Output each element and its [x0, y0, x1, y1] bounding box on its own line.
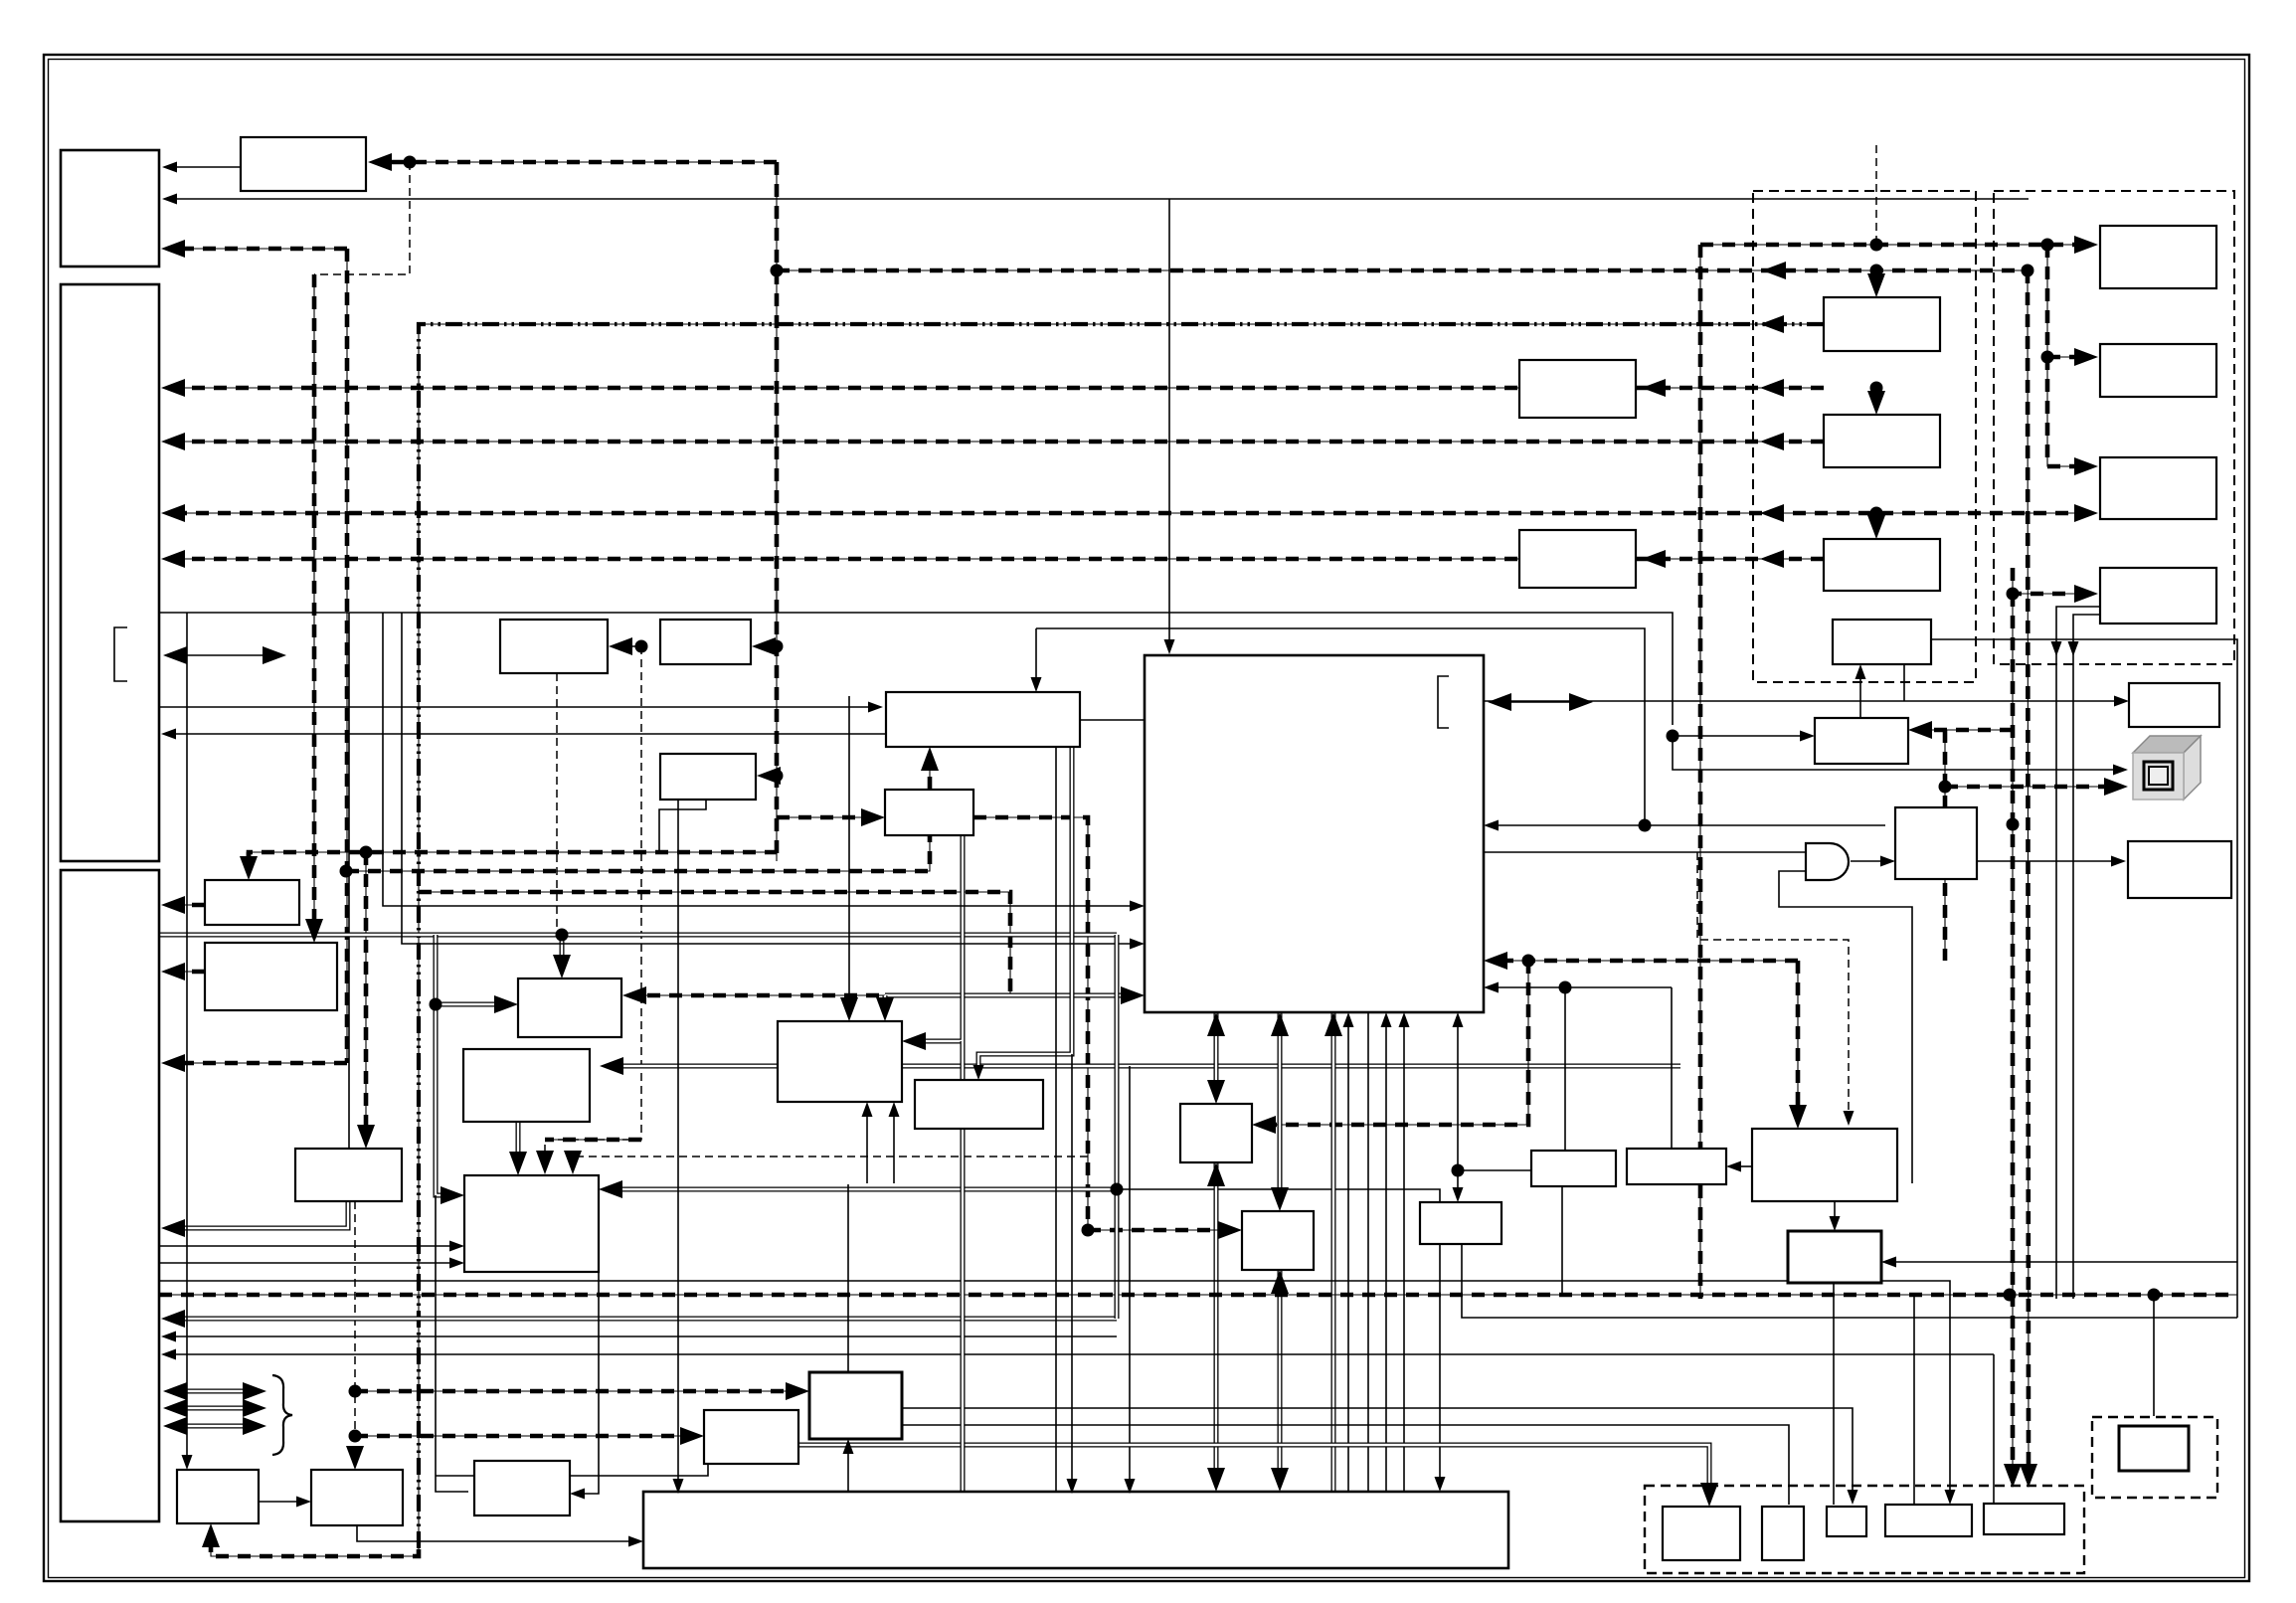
bus y=1237 into BR2 left edge: [1088, 1229, 1232, 1231]
bus y=857 J1 riser to x=781: [249, 852, 777, 861]
arrowhead x=2024 into bottom container: [2004, 1464, 2022, 1488]
arrowhead bus272 at container1 edge: [1762, 262, 1786, 279]
arrowhead into Q right y=993: [1484, 982, 1499, 993]
arrowhead into cube y=774: [2113, 765, 2128, 776]
arrowhead bus516 at container1 edge: [1760, 504, 1784, 522]
arrowhead into R1 left edge: [2074, 236, 2098, 254]
connector block P2 (left tall): [61, 284, 159, 861]
arrowhead into E2 top x=890: [876, 997, 894, 1021]
wire Q bottom x=1356 to W: [1347, 1022, 1349, 1492]
arrowhead bus390 into P2: [161, 379, 185, 397]
bus from F right y=822 corner down x=1094: [973, 817, 1088, 1230]
arrowhead into P3 y=1326: [161, 1310, 185, 1328]
arrowhead into E2 top x=854: [840, 997, 858, 1021]
right dashed container RC: [2092, 1417, 2217, 1498]
arrowhead into E2 bottom x=899: [889, 1102, 900, 1117]
heavy dashed arrow into BigR top x=1808: [1797, 961, 1799, 1119]
arrowhead into P3 y=1362: [161, 1349, 176, 1360]
double line into N right edge y=1072: [610, 1064, 1680, 1069]
solid line y=993 into Q right edge: [1494, 986, 1672, 988]
wire dot to D3: [767, 775, 777, 777]
arrowhead into BR1 bottom: [1207, 1162, 1225, 1186]
arrowhead into SG right edge: [570, 1489, 585, 1500]
curly brace right of arrow rows: [272, 1375, 292, 1455]
arrowhead into R4 left edge: [2074, 585, 2098, 603]
arrowhead bus444 at container1 edge: [1760, 433, 1784, 450]
connector block P3 (left bottom tall): [61, 870, 159, 1521]
box b3: [1827, 1507, 1866, 1536]
junction dot (781,780): [771, 770, 784, 783]
box D3 (register): [660, 754, 756, 800]
bus row y=516 (P2 to R3): [171, 512, 2090, 514]
arrowhead into P3 y=910: [161, 896, 185, 914]
arrowhead into R2 left edge: [2074, 348, 2098, 366]
solid line into P left y=1270 from P3: [159, 1262, 454, 1264]
arrowhead into P1 y=200: [162, 194, 177, 205]
vertical bus x=1887 into C1a: [1875, 270, 1877, 288]
double line Q bottom to BR1 top: [1214, 1012, 1219, 1094]
arrowhead into Q bottom x=1394: [1381, 1012, 1392, 1027]
arrowhead into Q top: [1164, 639, 1175, 654]
solid line into Q left y=949 from corner x=404: [402, 613, 1135, 944]
box D2 (latch): [660, 620, 751, 664]
box X1 (power): [177, 1470, 259, 1523]
bus arrow into P3 y=977 from J2: [171, 971, 205, 973]
arrowhead into BR1 right edge: [1252, 1116, 1276, 1134]
junction dot (368,857): [360, 846, 373, 859]
vertical wire x=1574 into S1 top: [1564, 987, 1566, 1151]
vertical bus x=1537 corner into BR1 right edge: [1262, 961, 1528, 1125]
box R1: [2100, 226, 2216, 288]
junction dot (1956,791): [1939, 781, 1952, 794]
vertical dashed x=645 from D2 row down to P top: [545, 646, 641, 1165]
arrowhead into P top x=521: [509, 1152, 527, 1175]
long line y=1288 to b4: [159, 1281, 1950, 1495]
bus y=876 from F bottom: [346, 835, 930, 871]
arrowhead into P3 y=1235: [161, 1219, 185, 1237]
arrowhead into b1 top: [1700, 1483, 1718, 1507]
box S3: [1788, 1231, 1881, 1283]
arrowhead into X1 bottom: [202, 1523, 220, 1547]
connector block P1 (top-left): [61, 150, 159, 267]
junction dot (2039,272): [2022, 265, 2034, 277]
arrowhead into D1 right edge: [609, 637, 632, 655]
box B (top buffer): [241, 137, 366, 191]
junction dot (1887,246): [1870, 239, 1883, 252]
bidir double arrow row3 y=1434: [173, 1424, 257, 1429]
arrow from W top up into Z bottom: [847, 1449, 849, 1492]
arrowhead into L top: [553, 955, 571, 979]
bus row y=444 (P2 to C1b): [171, 441, 1824, 443]
arrowhead bus516 into P2: [161, 504, 185, 522]
arrowhead into R3 left edge y=469: [2074, 457, 2098, 475]
box Z (pll): [809, 1372, 902, 1439]
vertical dashed x=560 from D1 bottom: [556, 673, 558, 932]
bus into P1 y=250 from x=349: [174, 248, 347, 250]
solid lines R4 bottom hooks down x=2085: [2073, 615, 2100, 1299]
double line y=1453 to b1: [798, 1445, 1709, 1495]
box S1: [1531, 1151, 1616, 1186]
bus y=1444 from dot to Y: [355, 1435, 694, 1437]
bus y=897 to x=1016 corner down: [419, 892, 1010, 995]
arrowhead into W top x=1223: [1207, 1468, 1225, 1492]
vertical wire x=1925 into b4: [1913, 1295, 1915, 1505]
arrowhead row1 right: [243, 1382, 266, 1400]
bottom dashed container BC: [1645, 1486, 2084, 1573]
arrowhead into S3 top: [1830, 1216, 1841, 1231]
box E (controller wide): [886, 692, 1080, 747]
box C1a: [1824, 297, 1940, 351]
arrowhead into Q right y=966: [1484, 952, 1507, 970]
arrowhead into W top x=682: [673, 1479, 684, 1494]
vertical bus x=2040 down right side: [2028, 270, 2029, 1478]
junction dot (357,1444): [349, 1430, 362, 1443]
arrowhead into D2 right edge: [752, 637, 776, 655]
arrowhead into S3 right edge: [1881, 1257, 1896, 1268]
arrowhead into BR2 bottom: [1271, 1270, 1289, 1294]
arrowhead into Z left edge: [786, 1382, 809, 1400]
wire BigR bottom to S3 top: [1834, 1201, 1836, 1221]
vertical bus x=1887 into C1b: [1875, 388, 1877, 406]
vertical wire x=1136 into W top: [1129, 1066, 1131, 1486]
arrowhead into C1b top: [1867, 391, 1885, 415]
junction dot (1682,740): [1667, 730, 1679, 743]
solid line into P3 y=1344: [171, 1336, 1117, 1337]
arrowhead into Q left y=949: [1130, 939, 1145, 950]
bus row y=390 (P2 to C1b): [171, 387, 1824, 389]
arrowhead into b3 top: [1848, 1490, 1858, 1505]
box b1: [1663, 1507, 1740, 1560]
vertical bus x=368 from y=857 into K top: [365, 852, 367, 1140]
vertical dashed x=412 drop: [314, 162, 410, 274]
vertical dashed x=357: [354, 1201, 356, 1460]
arrowhead into E top: [1031, 677, 1042, 692]
arrowhead into W left edge: [628, 1536, 643, 1547]
box b2: [1762, 1507, 1804, 1560]
junction dot (781,650): [771, 640, 784, 653]
wire U right to V: [1977, 860, 2116, 862]
and-gate lower input hook: [1779, 871, 1912, 1183]
vertical wire x=853 into Z top: [847, 1184, 849, 1372]
arrowhead bus390 into M1 right edge: [1642, 379, 1666, 397]
dash-dot bus y=326 (C1a to x=421 corner, down to 1565): [419, 324, 1824, 1549]
bus corner x=349 down to y=1069: [346, 249, 348, 1063]
box C1c: [1824, 539, 1940, 591]
bus y=272 (x=781 to right): [777, 269, 2029, 271]
arrowhead into X2 top: [346, 1446, 364, 1470]
arrowhead dashdot at container1 edge: [1760, 315, 1784, 333]
arrowhead bidir left: [163, 646, 187, 664]
arrowhead into P1 y=250: [161, 240, 185, 258]
arrowhead into C1c top: [1867, 515, 1885, 539]
arrowhead into N right edge: [600, 1057, 623, 1075]
box K: [295, 1149, 402, 1201]
junction dot (1654,830): [1639, 819, 1652, 832]
arrowhead into RT left edge: [2114, 696, 2129, 707]
vertical bus x=1887 into C1c: [1875, 513, 1877, 530]
wire X2 bottom down right to W: [357, 1525, 629, 1541]
arrowhead into W top x=1448: [1435, 1477, 1446, 1492]
box ST (bottom status): [915, 1080, 1043, 1129]
arrowhead into B y=163: [368, 153, 392, 171]
box R2: [2100, 344, 2216, 397]
arrowhead into BR2 left edge: [1218, 1221, 1242, 1239]
dashed container C2 (io bank): [1994, 191, 2234, 664]
dashed into T right edge from x=2024: [1918, 729, 2013, 731]
bus y=1399 from dot to Z: [355, 1390, 799, 1392]
dashed arrow into cube y=791: [1945, 786, 2118, 788]
junction dot (2166,1302): [2148, 1289, 2161, 1302]
double line F bottom x=968 down corner into E2 right: [912, 835, 963, 1041]
wire B to P1: [172, 166, 241, 168]
wire S3 bottom into b3 top: [1833, 1283, 1835, 1505]
wire E right edge y=724 to RT box: [1080, 701, 2119, 720]
bus x=1016 into L right edge: [632, 994, 1010, 996]
bottom dashed y=1565 return: [211, 1533, 419, 1556]
bus y=163 into B: [378, 161, 777, 163]
arrowhead into Z bottom: [843, 1439, 854, 1454]
bus F top to E bottom: [929, 756, 931, 790]
vertical wire x=188 into X1 top: [186, 613, 188, 1460]
arrowhead into P3 y=1069: [161, 1054, 185, 1072]
arrowhead into T right edge: [1908, 721, 1932, 739]
arrowhead bidir Q right: [1569, 693, 1593, 711]
arrowhead into P left edge y=1202: [441, 1186, 464, 1204]
arrowhead row3 right: [243, 1417, 266, 1435]
wire Q bottom x=1466 down to S4: [1457, 1022, 1459, 1192]
box V (far right result): [2128, 841, 2231, 898]
double line BR1 bottom to W top: [1214, 1162, 1219, 1482]
box S4: [1420, 1202, 1501, 1244]
double line E bottom pair to ST top: [978, 747, 1072, 1072]
box C1d (sync): [1833, 620, 1931, 664]
junction dot (2024,829): [2007, 818, 2020, 831]
arrowhead into P left y=1253: [449, 1241, 464, 1252]
arrowhead into Q left y=911: [1130, 901, 1145, 912]
arrowhead into BR1 top: [1207, 1080, 1225, 1104]
box R3: [2100, 457, 2216, 519]
box X2 (clock gen): [311, 1470, 403, 1525]
solid line y=774 from x=1682 corner right to cube: [1673, 736, 2118, 770]
arrowhead into P left y=1270: [449, 1258, 464, 1269]
box Y (osc): [704, 1410, 798, 1464]
junction dot (565,940): [556, 929, 569, 942]
box M1 (bus repeater upper): [1519, 360, 1636, 418]
arrowhead into J1 top: [240, 856, 258, 880]
bus y=246 top feed: [1700, 244, 2090, 246]
double line Q bottom x=1341 to W: [1331, 1012, 1336, 1492]
junction dot (357,1399): [349, 1385, 362, 1398]
vertical bus x=1956 from T feed down: [1944, 730, 1946, 961]
solid line y=711 into E: [159, 706, 873, 708]
arrowhead into F left edge: [861, 808, 885, 826]
arrowhead into P3 y=1344: [161, 1332, 176, 1342]
line Z right y=1433 to b2: [902, 1425, 1789, 1505]
arrowhead into BR2 top: [1271, 1187, 1289, 1211]
arrowhead into P3 y=977: [161, 963, 185, 980]
line Z right y=1416 to b3: [902, 1408, 1853, 1495]
bus return into P3 y=1069 from x=349: [171, 1062, 347, 1064]
arrowhead into Q bottom x=1341: [1325, 1012, 1342, 1036]
arrowhead x=2068 down at container2 bottom: [2051, 641, 2062, 656]
double line BR2 bottom to W top: [1278, 1270, 1283, 1482]
arrowhead into E2 right edge: [902, 1032, 926, 1050]
junction dot (1887,272): [1870, 265, 1883, 277]
junction dot (1887,390): [1870, 382, 1883, 395]
arrowhead into Q left edge y=1001: [1121, 986, 1145, 1004]
arrowhead into P2 y=738: [161, 729, 176, 740]
double line vertical x=1123 from y=940: [1115, 935, 1120, 1319]
arrowhead into S4 top: [1453, 1187, 1464, 1202]
solid lines R4 bottom hooks down x=2068: [2056, 607, 2100, 1299]
arrowhead into C1d bottom: [1855, 664, 1866, 679]
vertical wire x=1078 continuation to W top: [1071, 1054, 1073, 1486]
arrowhead into W top x=1078: [1067, 1479, 1078, 1494]
dashed container C1 (memory bank): [1753, 191, 1976, 682]
arrowhead bus562 into M2 right edge: [1642, 550, 1666, 568]
vertical wire x=351 from y=616 to K top: [348, 613, 350, 1149]
arrowhead into Q bottom x=1287: [1271, 1012, 1289, 1036]
wire C1d bottom drop to RT line: [1903, 664, 1905, 701]
arrowhead into ST top: [973, 1065, 984, 1080]
box b5: [1984, 1504, 2064, 1534]
vertical x=438 down into SG: [436, 1195, 468, 1492]
arrowhead into L left edge: [494, 995, 518, 1013]
arrowhead x=2040 into bottom container: [2020, 1464, 2037, 1488]
vertical bus x=250 into J1: [248, 852, 250, 871]
bracket label left of P2: [114, 627, 127, 681]
junction dot (348,876): [340, 865, 353, 878]
box b4: [1885, 1505, 1972, 1536]
box C1b: [1824, 415, 1940, 467]
arrowhead bidir Q left: [1488, 693, 1511, 711]
wire dot to D2: [762, 645, 777, 647]
double line K bottom down to y=1235: [171, 1201, 348, 1228]
vertical wire T top to C1d bottom: [1859, 674, 1861, 718]
vertical wire x=854 into E2 top: [848, 696, 850, 1011]
wire from dot right corner x=1448 down into W top: [1117, 1189, 1440, 1482]
box P (bottom-left processor): [464, 1175, 599, 1272]
arrowhead into Q bottom x=1356: [1343, 1012, 1354, 1027]
vertical bus x=2024 down: [2012, 594, 2014, 1478]
wire S1 bottom down: [1561, 1186, 1563, 1295]
vertical wire into Q top x=1176: [1168, 199, 1170, 644]
junction dot (1537,966): [1522, 955, 1535, 968]
arrowhead bus562 at container1 edge: [1760, 550, 1784, 568]
long line y=1307 right segment: [1130, 1353, 1994, 1355]
arrowhead into L right edge: [622, 986, 646, 1004]
box J1: [205, 880, 299, 925]
box SG (bottom status gen): [474, 1461, 570, 1515]
double line vertical x=438: [436, 935, 442, 1195]
junction dot (1466,1177): [1452, 1164, 1465, 1177]
and-gate output to U: [1851, 860, 1885, 862]
big box Q (CPU core): [1145, 655, 1484, 1012]
box R4: [2100, 568, 2216, 623]
wire Q right y=857 to and-gate input: [1484, 851, 1806, 853]
bus corner into P top x=548 segment: [545, 1139, 641, 1141]
wire P right edge drop into SG right: [585, 1272, 599, 1494]
box M2 (bus repeater lower): [1519, 530, 1636, 588]
arrowhead row1 left: [163, 1382, 187, 1400]
solid line into P3 y=1362: [171, 1353, 1130, 1355]
arrowhead into P1 y=168: [162, 162, 177, 173]
vertical bus x=2059 down to R2 R3: [2046, 245, 2048, 357]
arrowhead x=2085 down at container2 bottom: [2068, 641, 2079, 656]
junction dot (1887,516): [1870, 507, 1883, 520]
vertical wire x=2005 into b5: [1993, 1354, 1995, 1504]
arrowhead into D3 right edge: [757, 767, 781, 785]
bus y=966 into Q right edge: [1494, 960, 1798, 962]
bidir double arrow row1 y=1399: [173, 1389, 257, 1394]
arrowhead into cube: [2104, 778, 2128, 796]
arrowhead into U left edge: [1880, 856, 1895, 867]
and-gate U1: [1806, 843, 1849, 880]
wire into S3 right edge from right: [1891, 1261, 2237, 1263]
junction dot (1094,1237): [1082, 1224, 1095, 1237]
vertical wire from E bottom x=1062 to W top: [1055, 747, 1057, 1494]
vertical wire x=1681 into S2 top: [1671, 987, 1673, 1149]
arrowhead into W top x=1136: [1125, 1479, 1136, 1494]
thin dashed vertical x=1887 from top: [1875, 145, 1877, 245]
arrowhead into C1a top: [1867, 273, 1885, 297]
box U (and output latch): [1895, 807, 1977, 879]
double line into P3 y=1326: [173, 1317, 1117, 1322]
bus dot to R2: [2047, 356, 2090, 358]
arrowhead bus562 into P2: [161, 550, 185, 568]
double line y=937 with riser into L top: [159, 933, 1117, 938]
junction dot (2024,597): [2007, 588, 2020, 601]
wire BigR left to S2 right: [1736, 1165, 1752, 1167]
arrowhead into V left edge: [2111, 856, 2126, 867]
bus arrow into P3 y=910 from J1: [171, 904, 205, 906]
box E2 (dma): [778, 1021, 902, 1102]
junction dot (2021,1302): [2004, 1289, 2017, 1302]
wire X1 to X2: [259, 1501, 301, 1503]
solid line into P left y=1253 from P3: [159, 1245, 454, 1247]
arrowhead into K top: [357, 1125, 375, 1149]
arrowhead into P top x=576: [564, 1151, 582, 1174]
solid line y=740 into T: [1673, 735, 1805, 737]
junction dot (1123,1196): [1111, 1183, 1124, 1196]
wire Q bottom x=1412 to W: [1403, 1022, 1405, 1492]
arrowhead into X2 left edge: [296, 1497, 311, 1508]
arrowhead bus516 into R3: [2074, 504, 2098, 522]
double line corner down into E2 top: [883, 995, 888, 1011]
box D1 (decoder): [500, 620, 608, 673]
box BR1: [1180, 1104, 1252, 1162]
box N: [463, 1049, 590, 1122]
vertical wire into E top x=1042: [1035, 628, 1037, 682]
vertical wire x=899 from below into E2 bottom: [893, 1112, 895, 1183]
box J2: [205, 943, 337, 1010]
vertical wire x=872 from below into E2 bottom: [866, 1112, 868, 1183]
arrowhead into W top x=1287: [1271, 1468, 1289, 1492]
arrowhead row2 right: [243, 1399, 266, 1417]
line x=1654 to U left edge: [1645, 824, 1885, 826]
bracket label inside Q: [1438, 676, 1449, 728]
arrowhead into P right edge: [599, 1180, 622, 1198]
double line into P right edge y=1196: [609, 1187, 1117, 1192]
wire from C1d right edge along frame x=2250: [1931, 639, 2237, 1318]
arrowhead into J2 top: [305, 919, 323, 943]
bidirectional arrow at Q right edge y=706: [1498, 701, 1583, 703]
junction dot (438,1010): [430, 998, 442, 1011]
box RT (right small, fed from E): [2129, 683, 2219, 727]
cube 3d icon: [2133, 736, 2201, 800]
arrowhead into S2 right edge: [1726, 1161, 1741, 1172]
bidirectional arrow at P2 y=659: [173, 654, 276, 656]
